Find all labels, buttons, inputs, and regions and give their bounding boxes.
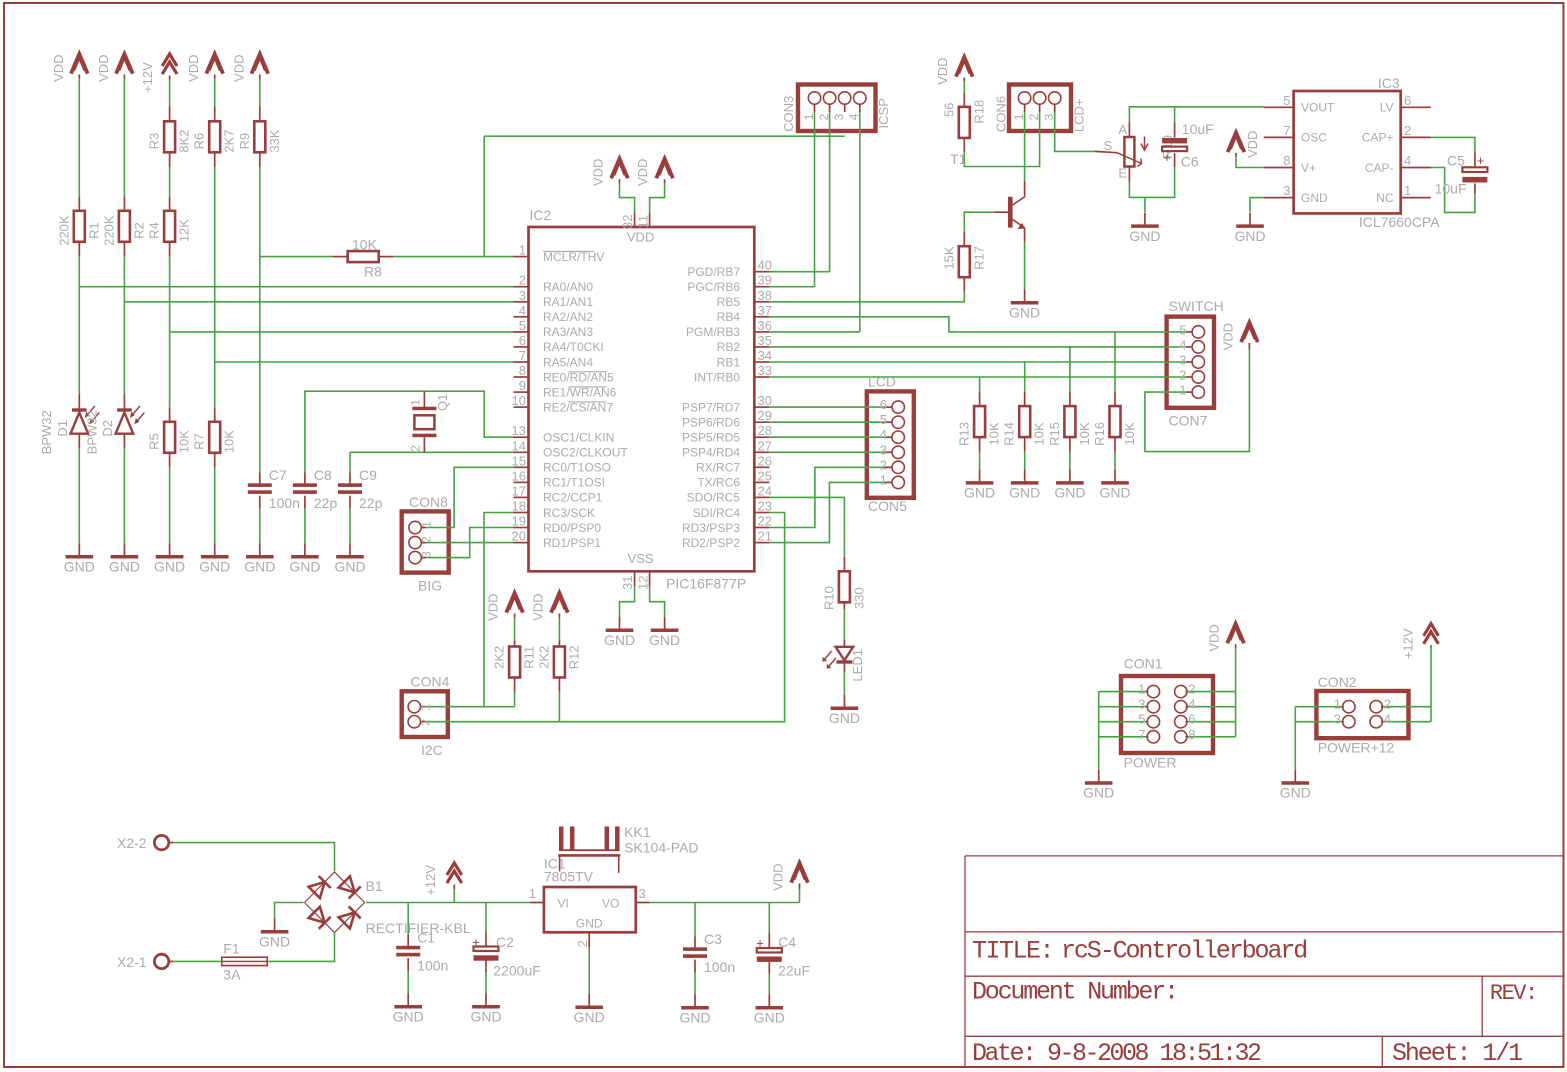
svg-text:KK1: KK1: [624, 824, 651, 840]
svg-text:VDD: VDD: [96, 54, 111, 81]
svg-text:R2: R2: [131, 222, 146, 239]
IC2 pin 31 VSS stub: [634, 571, 636, 586]
svg-text:30: 30: [758, 393, 772, 408]
svg-text:7805TV: 7805TV: [544, 869, 594, 885]
ground under R5: [169, 544, 171, 556]
svg-text:PSP4/RD4: PSP4/RD4: [682, 446, 740, 460]
svg-text:2: 2: [575, 940, 590, 947]
wire SWITCH pin1 to VDD loop: [1145, 349, 1250, 451]
svg-text:R6: R6: [192, 133, 207, 150]
svg-text:40: 40: [758, 258, 772, 273]
svg-text:E: E: [1118, 166, 1127, 181]
svg-text:R8: R8: [364, 264, 382, 280]
IC2 body PIC16F877P: [529, 227, 755, 571]
svg-text:OSC2/CLKOUT: OSC2/CLKOUT: [543, 446, 628, 460]
IC2 pin 6 RA4/T0CKI: [514, 346, 529, 348]
svg-text:5: 5: [880, 412, 887, 427]
svg-text:RA1/AN1: RA1/AN1: [543, 295, 593, 309]
svg-text:27: 27: [758, 438, 772, 453]
+12V arrow at rectifier: [447, 863, 462, 875]
wire IC2 pin22 to CON5 pin2: [769, 467, 884, 527]
wire IC3 pin2 to C5 plus: [1431, 137, 1475, 152]
svg-text:2K7: 2K7: [222, 130, 237, 153]
IC2 pin 36 PGM/RB3: [754, 331, 769, 333]
svg-text:18: 18: [512, 499, 526, 514]
wire CON3 pin2 down: [829, 112, 831, 272]
ground under R15: [1069, 470, 1071, 482]
svg-text:RE0/RD/AN5: RE0/RD/AN5: [543, 370, 614, 384]
wire IC2 pin18 to CON4 pin1 net: [484, 513, 514, 707]
svg-text:R14: R14: [1002, 422, 1017, 446]
svg-text:CON7: CON7: [1169, 413, 1208, 429]
svg-text:10K: 10K: [1122, 422, 1137, 445]
wire IC2 pin11 to VDD arrow: [650, 183, 665, 212]
VDD arrow above R11: [506, 593, 523, 613]
wire D2 anode to GND: [123, 448, 125, 543]
svg-text:GND: GND: [1280, 785, 1311, 801]
wire CON1 right pin row: [1187, 706, 1236, 708]
wire IC2 pin21 to CON5 pin1: [769, 482, 884, 542]
wire C9 to GND: [349, 508, 351, 543]
svg-text:CON4: CON4: [411, 674, 450, 690]
svg-text:VDD: VDD: [935, 57, 950, 84]
IC2 pin 17 RC2/CCP1: [514, 496, 529, 498]
svg-text:7: 7: [519, 348, 526, 363]
svg-text:OSC1/CLKIN: OSC1/CLKIN: [543, 431, 614, 445]
svg-text:VDD: VDD: [627, 230, 654, 245]
IC1 body 7805TV: [544, 887, 636, 932]
svg-text:GND: GND: [289, 559, 320, 575]
svg-text:C9: C9: [359, 467, 377, 483]
svg-text:PSP5/RD5: PSP5/RD5: [682, 431, 740, 445]
connector CON4 box I2C: [402, 691, 448, 737]
svg-text:1: 1: [802, 113, 816, 120]
svg-text:1: 1: [519, 243, 526, 258]
wire CON2 left pin row: [1295, 706, 1342, 708]
ground at CON2: [1294, 770, 1296, 782]
svg-text:GND: GND: [574, 1009, 605, 1025]
svg-text:GND: GND: [259, 934, 290, 950]
svg-text:OSC: OSC: [1301, 131, 1327, 145]
svg-text:38: 38: [758, 288, 772, 303]
VDD arrow above R1: [71, 54, 88, 74]
svg-text:C5: C5: [1447, 153, 1465, 169]
svg-text:+12V: +12V: [140, 62, 155, 93]
svg-text:B1: B1: [366, 878, 383, 894]
svg-text:2: 2: [519, 273, 526, 288]
IC3 pin 6 LV: [1401, 106, 1431, 108]
svg-text:VDD: VDD: [186, 54, 201, 81]
wire VDD arrow to IC3 pin8: [1236, 157, 1264, 168]
svg-text:VO: VO: [602, 897, 619, 911]
VDD arrow at SWITCH: [1241, 323, 1258, 343]
wire CON1 right pin row: [1187, 736, 1236, 738]
wire VDD column D R6-R7: [214, 79, 216, 107]
svg-text:10K: 10K: [352, 237, 378, 253]
svg-text:100n: 100n: [417, 958, 448, 974]
svg-text:RC2/CCP1: RC2/CCP1: [543, 491, 603, 505]
svg-text:7: 7: [1283, 123, 1290, 138]
svg-text:GND: GND: [1054, 485, 1085, 501]
capacitor C1 100n: [407, 935, 409, 950]
svg-text:R11: R11: [522, 646, 537, 669]
svg-text:GND: GND: [1099, 485, 1130, 501]
svg-text:PGD/RB7: PGD/RB7: [687, 265, 740, 279]
ground under trimmer: [1144, 213, 1146, 225]
svg-text:6: 6: [880, 397, 887, 412]
svg-text:15: 15: [512, 453, 526, 468]
svg-text:R18: R18: [971, 100, 986, 124]
svg-text:10uF: 10uF: [1182, 121, 1214, 137]
svg-text:3: 3: [1138, 697, 1145, 712]
IC2 pin 35 RB2: [754, 346, 769, 348]
wire IC2 pin19 to CON8 pin3: [426, 528, 513, 558]
svg-text:RB5: RB5: [717, 295, 741, 309]
wire VOUT rail: trimmer A / C6 to IC3 pin5: [1129, 107, 1263, 123]
svg-text:CON8: CON8: [409, 494, 448, 510]
wire VDD arrow stem at 7805: [799, 889, 801, 903]
svg-text:IC2: IC2: [530, 207, 552, 223]
wire R16 to GND: [1114, 452, 1116, 470]
svg-text:6: 6: [1404, 93, 1411, 108]
wire R11 bottom tap: [514, 692, 516, 707]
svg-text:39: 39: [758, 273, 772, 288]
wire IC2 pin20 to CON8 pin2: [426, 542, 513, 544]
svg-text:CON5: CON5: [868, 498, 907, 514]
svg-text:RC0/T1OSO: RC0/T1OSO: [543, 461, 611, 475]
svg-text:2: 2: [1188, 682, 1195, 697]
resistor R15 10K: [1069, 392, 1071, 407]
wire R14 to GND: [1024, 452, 1026, 470]
svg-text:rcS-Controllerboard: rcS-Controllerboard: [1061, 937, 1306, 966]
IC3 pin 1 NC: [1401, 197, 1431, 199]
svg-text:VDD: VDD: [530, 593, 545, 620]
svg-text:VOUT: VOUT: [1301, 101, 1335, 115]
IC2 pin 16 RC1/T1OSI: [514, 481, 529, 483]
svg-text:GND: GND: [199, 559, 230, 575]
svg-text:+12V: +12V: [1400, 628, 1415, 659]
wire net RA0 row: D1 junction to IC2 pin2: [79, 286, 513, 288]
wire CON2 right pin row: [1382, 706, 1431, 708]
svg-text:VI: VI: [558, 897, 569, 911]
VDD arrow at IC3 V+: [1228, 133, 1245, 153]
IC3 pin 4 CAP-: [1401, 167, 1431, 169]
wire C9 top tap: [349, 452, 351, 472]
svg-text:CON2: CON2: [1318, 674, 1357, 690]
wire IC2 pin12 to GND: [650, 586, 665, 617]
svg-text:ICSP: ICSP: [876, 98, 891, 128]
svg-text:RB4: RB4: [717, 310, 741, 324]
svg-text:PIC16F877P: PIC16F877P: [666, 576, 746, 592]
svg-text:RA0/AN0: RA0/AN0: [543, 280, 593, 294]
svg-text:5: 5: [1283, 93, 1290, 108]
wire IC2 pin24 to R10: [769, 497, 844, 556]
capacitor C3 100n: [694, 936, 696, 951]
ground at IC2 pin31: [619, 617, 621, 629]
svg-text:LV: LV: [1380, 101, 1394, 115]
IC2 pin 34 RB1: [754, 361, 769, 363]
IC2 pin 26 RX/RC7: [754, 466, 769, 468]
svg-text:56: 56: [941, 102, 956, 116]
wire C2 to GND: [485, 972, 487, 994]
svg-text:17: 17: [512, 483, 526, 498]
svg-text:CON1: CON1: [1124, 656, 1163, 672]
svg-text:VDD: VDD: [635, 159, 650, 186]
svg-text:Sheet: 1/1: Sheet: 1/1: [1392, 1039, 1522, 1068]
svg-text:2: 2: [1384, 697, 1391, 712]
wire CON3 pin1 down: [814, 112, 816, 287]
svg-text:3: 3: [519, 288, 526, 303]
wire IC2 pin29 to CON5 pin5: [769, 421, 884, 423]
svg-text:GND: GND: [576, 917, 603, 931]
svg-text:3: 3: [832, 113, 846, 120]
connector CON7 SWITCH pins: [1192, 326, 1204, 338]
svg-text:29: 29: [758, 408, 772, 423]
wire R13 tap down: [979, 377, 981, 392]
svg-text:R3: R3: [147, 133, 162, 150]
svg-text:C3: C3: [704, 931, 722, 947]
wire CON2 left pin row: [1295, 721, 1342, 723]
wire IC2 pin32 to VDD arrow: [620, 183, 635, 212]
wire R5 to GND: [169, 467, 171, 543]
capacitor C9 22p: [349, 472, 351, 487]
wire net RA5 row: R6/R7 junction to IC2 pin7: [215, 361, 514, 363]
svg-text:RE2/CS/AN7: RE2/CS/AN7: [543, 400, 613, 414]
svg-text:VDD: VDD: [51, 54, 66, 81]
wire IC2 pin27 to CON5 pin3: [769, 451, 884, 453]
IC2 pin 1 MCLR/THV: [514, 256, 529, 258]
wire IC2 pin38 to R17: [769, 292, 964, 302]
svg-text:2: 2: [880, 457, 887, 472]
ground under LED1: [843, 695, 845, 707]
resistor R14 10K: [1024, 392, 1026, 407]
wire IC3 pin4 to C5 minus: [1431, 168, 1475, 213]
IC2 pin 10 RE2/CS/AN7: [514, 406, 529, 408]
capacitor C5 10uF polarized: [1474, 152, 1476, 167]
svg-text:+12V: +12V: [423, 865, 438, 896]
wire CON6 pin1 to T1 collector: [1024, 112, 1026, 181]
svg-text:ICL7660CPA: ICL7660CPA: [1359, 214, 1440, 230]
wire R17 top to T1 base: [964, 212, 994, 232]
wire +12V column to R3-R4: [169, 80, 171, 107]
connector CON6 box: [1009, 85, 1071, 132]
ground under T1: [1024, 290, 1026, 302]
photodiode D1 BPW32: [78, 394, 80, 409]
wire R13 to GND: [979, 452, 981, 470]
svg-text:GND: GND: [964, 485, 995, 501]
wire R12 bottom tap: [558, 692, 560, 722]
svg-text:GND: GND: [1234, 228, 1265, 244]
svg-text:1: 1: [420, 521, 434, 528]
svg-text:GND: GND: [470, 1009, 501, 1025]
IC2 pin 23 SDI/RC4: [754, 512, 769, 514]
svg-text:D1: D1: [55, 420, 70, 437]
resistor R2 220K: [123, 196, 125, 211]
wire net RA1 row: D2 junction to IC2 pin3: [124, 301, 513, 303]
svg-text:T1: T1: [950, 151, 967, 167]
wire R10 to LED1: [843, 609, 845, 640]
resistor R5 10K: [169, 407, 171, 422]
svg-text:SWITCH: SWITCH: [1169, 298, 1224, 314]
wire net RA3 row: R4/R5 junction to IC2 pin5: [170, 331, 514, 333]
svg-text:RECTIFIER-KBL: RECTIFIER-KBL: [366, 920, 471, 936]
svg-text:26: 26: [758, 453, 772, 468]
svg-text:35: 35: [758, 333, 772, 348]
svg-text:RD3/PSP3: RD3/PSP3: [682, 521, 740, 535]
svg-text:10K: 10K: [222, 430, 237, 453]
IC2 pin 12 VSS stub: [649, 571, 651, 586]
IC2 pin 8 RE0/RD/AN5: [514, 376, 529, 378]
ground under C4: [768, 995, 770, 1007]
resistor R13 10K: [979, 392, 981, 407]
svg-text:32: 32: [620, 215, 635, 229]
resistor R7 10K: [214, 407, 216, 422]
svg-text:4: 4: [1179, 337, 1186, 352]
capacitor C7 100n: [259, 472, 261, 487]
svg-text:+: +: [756, 936, 764, 951]
svg-text:3: 3: [1334, 712, 1341, 727]
IC2 pin 25 TX/RC6: [754, 481, 769, 483]
svg-text:4: 4: [519, 303, 526, 318]
IC2 pin 13 OSC1/CLKIN: [514, 436, 529, 438]
ground under C7: [259, 544, 261, 556]
svg-text:8: 8: [1283, 153, 1290, 168]
svg-text:9: 9: [519, 378, 526, 393]
svg-text:1: 1: [529, 886, 536, 901]
svg-text:25: 25: [758, 468, 772, 483]
svg-text:IC3: IC3: [1378, 75, 1400, 91]
svg-text:20: 20: [512, 529, 526, 544]
resistor R3 8K2: [169, 107, 171, 122]
svg-text:2: 2: [420, 536, 434, 543]
wire C4 to GND: [768, 974, 770, 995]
svg-text:Date: 9-8-2008 18:51:32: Date: 9-8-2008 18:51:32: [972, 1039, 1261, 1068]
svg-text:2: 2: [1179, 368, 1186, 383]
svg-text:SK104-PAD: SK104-PAD: [624, 840, 698, 856]
ground under D1: [78, 544, 80, 556]
svg-text:GND: GND: [154, 559, 185, 575]
svg-text:1: 1: [1012, 113, 1026, 120]
svg-text:GND: GND: [679, 1010, 710, 1026]
svg-text:3: 3: [1179, 353, 1186, 368]
svg-text:LCD: LCD: [868, 374, 896, 390]
svg-text:PGC/RB6: PGC/RB6: [687, 280, 740, 294]
IC2 pin 4 RA2/AN2: [514, 316, 529, 318]
wire bridge plus to IC1 VI rail: [366, 902, 530, 904]
svg-text:22uF: 22uF: [778, 963, 810, 979]
ground at IC1 pin2: [588, 994, 590, 1006]
wire CON1 left pin row: [1099, 691, 1148, 693]
IC3 body ICL7660CPA: [1294, 91, 1401, 213]
IC2 pin 3 RA1/AN1: [514, 301, 529, 303]
wire trimmer E / C6 bottom to GND: [1129, 167, 1174, 197]
IC3 pin 7 OSC: [1264, 136, 1294, 138]
wire VDD arrow to R11: [514, 618, 516, 641]
wire R15 tap down: [1069, 347, 1071, 392]
wire VDD column A to D1: [78, 79, 80, 197]
resistor R10 330: [843, 557, 845, 572]
svg-text:21: 21: [758, 529, 772, 544]
svg-text:6: 6: [1188, 712, 1195, 727]
IC2 pin 11 VDD stub: [649, 212, 651, 227]
svg-text:1: 1: [1179, 383, 1186, 398]
svg-text:1: 1: [409, 399, 423, 406]
connector CON5 box LCD: [867, 391, 914, 497]
VDD arrow above R18: [956, 57, 973, 77]
trimmer potentiometer R19: [1128, 122, 1130, 137]
svg-text:100n: 100n: [704, 959, 735, 975]
svg-text:GND: GND: [829, 710, 860, 726]
svg-text:F1: F1: [223, 941, 240, 957]
connector CON6 LCD+ pins: [1018, 92, 1030, 104]
svg-text:220K: 220K: [56, 215, 71, 246]
svg-text:POWER+12: POWER+12: [1318, 740, 1395, 756]
svg-text:2: 2: [1027, 113, 1041, 120]
svg-text:8: 8: [1188, 727, 1195, 742]
svg-text:INT/RB0: INT/RB0: [694, 370, 740, 384]
svg-text:+: +: [1477, 153, 1485, 168]
wire IC1 VO rail to VDD: [650, 902, 800, 904]
svg-text:VDD: VDD: [231, 54, 246, 81]
+12V arrow above R3: [162, 54, 177, 66]
svg-text:3A: 3A: [223, 967, 241, 983]
wire IC2 pin30 to CON5 pin6: [769, 406, 884, 408]
svg-text:REV:: REV:: [1490, 981, 1537, 1006]
capacitor C4 22uF polarized: [768, 934, 770, 949]
svg-text:2K2: 2K2: [492, 646, 507, 669]
wire CON6 pin3 to trimmer wiper: [1055, 112, 1095, 151]
connector CON1 box POWER: [1121, 676, 1213, 753]
svg-text:GND: GND: [1083, 785, 1114, 801]
IC3 pin 2 CAP+: [1401, 136, 1431, 138]
svg-text:SDI/RC4: SDI/RC4: [693, 506, 741, 520]
svg-text:GND: GND: [1009, 485, 1040, 501]
IC2 pin 27 PSP4/RD4: [754, 451, 769, 453]
svg-text:GND: GND: [244, 559, 275, 575]
IC2 pin 40 PGD/RB7: [754, 271, 769, 273]
connector CON2 POWER+12 pins: [1343, 701, 1355, 713]
svg-text:SDO/RC5: SDO/RC5: [687, 491, 741, 505]
ground under C2: [485, 994, 487, 1006]
svg-text:RD1/PSP1: RD1/PSP1: [543, 536, 601, 550]
svg-text:R1: R1: [86, 222, 101, 239]
wire X2-1 to fuse: [173, 960, 220, 962]
wire R16 tap down: [1114, 332, 1116, 392]
svg-text:220K: 220K: [101, 215, 116, 246]
wire VDD to R18: [963, 81, 965, 92]
resistor R6 2K7: [214, 107, 216, 122]
svg-text:VDD: VDD: [1220, 323, 1235, 350]
wire IC2 pin23 to CON4 pin2 net: [426, 513, 785, 722]
wire CON1 left pin row: [1099, 706, 1148, 708]
ground under R13: [979, 470, 981, 482]
svg-text:23: 23: [758, 499, 772, 514]
svg-text:22p: 22p: [314, 495, 338, 511]
svg-text:3: 3: [1042, 113, 1056, 120]
ground under R16: [1114, 470, 1116, 482]
svg-text:RB2: RB2: [717, 340, 741, 354]
connector CON8 box BIG: [402, 511, 449, 572]
svg-text:CON6: CON6: [994, 96, 1009, 132]
svg-text:PSP7/RD7: PSP7/RD7: [682, 400, 740, 414]
connector CON4 I2C pins: [408, 701, 420, 713]
svg-text:TITLE:: TITLE:: [972, 937, 1053, 966]
svg-text:11: 11: [636, 215, 651, 229]
wire R14 tap down: [1024, 362, 1026, 392]
svg-text:R10: R10: [821, 586, 836, 610]
svg-text:VDD: VDD: [1245, 131, 1260, 158]
svg-text:A: A: [1118, 122, 1127, 137]
